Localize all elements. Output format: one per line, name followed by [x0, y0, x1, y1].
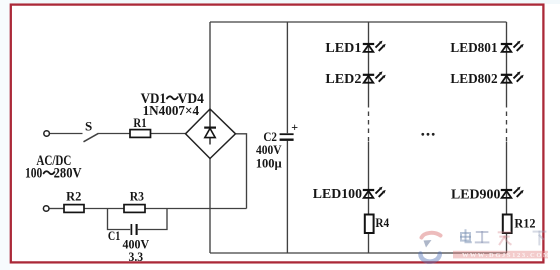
svg-text:LED900: LED900 — [451, 188, 500, 203]
svg-text:W W W . D G J S 1 2 3 . C O M: W W W . D G J S 1 2 3 . C O M — [462, 252, 549, 259]
svg-text:LED801: LED801 — [450, 41, 497, 56]
svg-text:LED2: LED2 — [325, 72, 361, 87]
svg-text:R2: R2 — [66, 188, 81, 203]
svg-text:+: + — [291, 120, 298, 134]
svg-text:S: S — [85, 119, 92, 134]
svg-text:LED802: LED802 — [450, 72, 497, 87]
svg-text:100µ: 100µ — [256, 155, 282, 170]
svg-text:1N4007×4: 1N4007×4 — [143, 103, 200, 118]
svg-text:C1: C1 — [108, 228, 120, 243]
svg-text:R4: R4 — [375, 215, 389, 230]
svg-text:LED1: LED1 — [325, 41, 361, 56]
svg-text:3.3: 3.3 — [129, 249, 144, 264]
svg-text:280V: 280V — [54, 166, 82, 182]
svg-text:LED100: LED100 — [313, 187, 362, 202]
svg-text:R12: R12 — [514, 216, 535, 231]
svg-text:R3: R3 — [130, 188, 145, 203]
svg-text:100: 100 — [25, 166, 42, 182]
